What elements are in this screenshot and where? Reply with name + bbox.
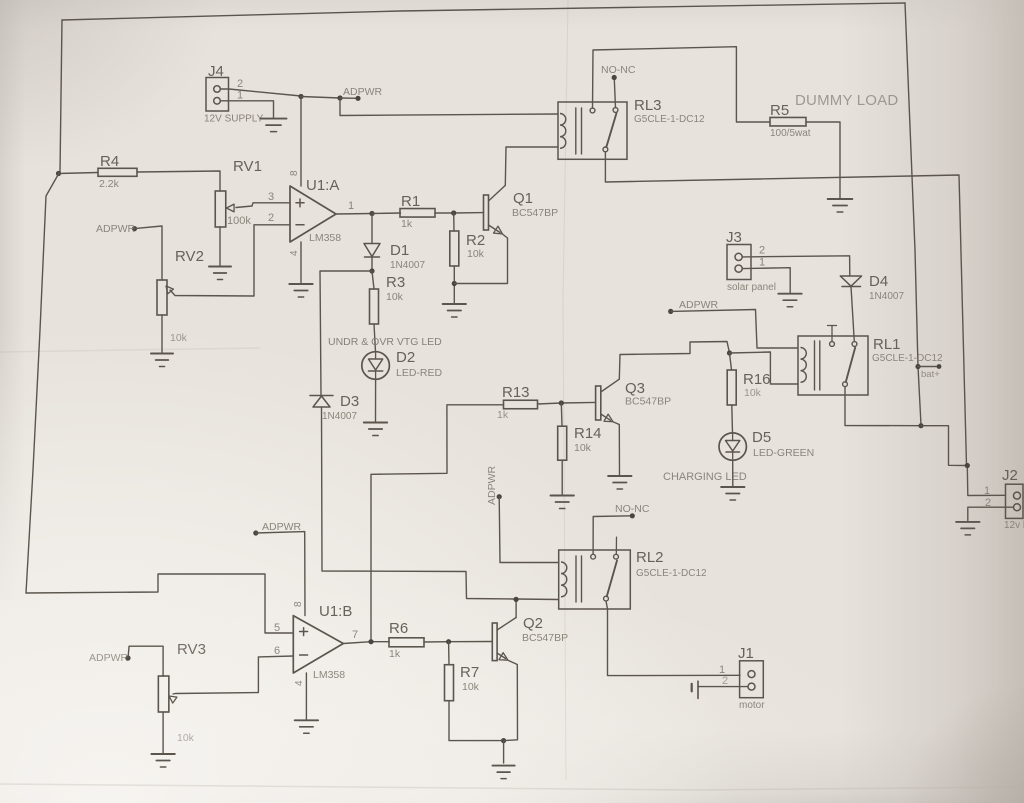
label R3 value 10k xyxy=(386,291,404,303)
ground U1:A xyxy=(289,284,312,297)
node U1:A output junction xyxy=(369,211,374,216)
svg-text:10k: 10k xyxy=(574,442,592,454)
wire D2 to ground xyxy=(375,379,377,421)
svg-text:NO-NC: NO-NC xyxy=(601,64,636,76)
label D1 value 1N4007 xyxy=(390,260,425,271)
label R13 value 1k xyxy=(497,409,509,421)
svg-text:Q3: Q3 xyxy=(625,380,645,397)
wire RV3 wiper to U1:B pin6 xyxy=(173,656,293,694)
wire node to R7 xyxy=(448,642,450,665)
svg-text:5: 5 xyxy=(274,622,280,634)
svg-text:D3: D3 xyxy=(340,393,359,410)
label U1:B LM358 xyxy=(313,669,345,681)
svg-text:10k: 10k xyxy=(467,248,485,260)
label R16 xyxy=(743,371,771,388)
label net ADPWR (RV2) xyxy=(96,223,136,235)
label net ADPWR (U1:B) xyxy=(262,521,302,533)
label R7 value 10k xyxy=(462,681,480,693)
wire Q2 collector to RL2 coil node xyxy=(515,599,517,617)
relay RL3 xyxy=(558,102,627,159)
wire RV1 bottom to ground xyxy=(219,227,221,266)
connector J1 xyxy=(740,661,764,698)
svg-text:J1: J1 xyxy=(738,645,754,662)
ground R2 xyxy=(443,304,466,317)
label Q3 xyxy=(625,380,645,397)
diode D3 xyxy=(310,396,333,408)
node RL1 common/bat+ junction xyxy=(918,423,923,428)
label R7 xyxy=(460,664,479,681)
svg-text:NO-NC: NO-NC xyxy=(615,503,650,515)
svg-text:RV1: RV1 xyxy=(233,158,262,175)
svg-text:2: 2 xyxy=(722,675,728,687)
svg-text:Q1: Q1 xyxy=(513,190,533,207)
svg-text:DUMMY LOAD: DUMMY LOAD xyxy=(795,92,898,109)
wire RL2 common to J1 xyxy=(606,601,740,676)
wire Q1 collector to RL3 xyxy=(505,147,558,185)
node R13/R14 junction xyxy=(559,400,564,405)
label motor xyxy=(739,700,765,711)
wire bat+ stub xyxy=(918,366,939,368)
wire R2 to ground xyxy=(453,266,455,303)
wire top border (bat+ net) xyxy=(62,3,905,20)
svg-text:12V SUPPLY: 12V SUPPLY xyxy=(204,114,264,125)
ground J2 xyxy=(956,522,979,535)
ground D5 xyxy=(721,487,744,500)
svg-text:4: 4 xyxy=(294,680,305,686)
wire D1 to node xyxy=(371,257,373,271)
wire U1:B output pin7 xyxy=(343,642,389,644)
wire RV2 bottom to ground xyxy=(161,315,163,353)
label U1:A xyxy=(306,177,339,194)
connector J4 xyxy=(206,78,229,112)
label R2 xyxy=(466,232,485,249)
wire node to R1 xyxy=(372,212,401,215)
relay RL2 xyxy=(559,537,631,609)
wire node to R16 xyxy=(730,353,732,370)
wire R1 to Q1 base xyxy=(435,212,484,214)
wire right border vertical (bat+) xyxy=(905,3,921,425)
label net ADPWR (RV3) xyxy=(89,652,129,664)
svg-text:1: 1 xyxy=(237,90,243,102)
label U1:B pin 7 xyxy=(352,629,358,641)
svg-text:1N4007: 1N4007 xyxy=(322,411,357,422)
node ADPWR terminal xyxy=(355,96,360,101)
node R6/R7 junction xyxy=(446,639,451,644)
transistor Q2 xyxy=(492,618,517,741)
node R2/Q1 emitter junction xyxy=(452,281,457,286)
wire RL1 common to bat+ junction xyxy=(845,387,921,426)
wire node to R3 xyxy=(372,271,374,289)
label R4 value 2.2k xyxy=(99,178,120,190)
svg-text:10k: 10k xyxy=(170,332,188,344)
node bat+ terminal xyxy=(937,364,942,369)
wire junction to ADPWR dot xyxy=(301,97,340,99)
label R2 value 10k xyxy=(467,248,485,260)
label R1 xyxy=(401,193,420,210)
label J2 xyxy=(1002,467,1018,484)
wire ADPWR to RL2 coil pin1 xyxy=(499,497,559,563)
svg-text:D1: D1 xyxy=(390,242,409,259)
ground J3 xyxy=(778,294,801,307)
resistor R3 xyxy=(370,289,379,324)
label U1:B pin 5 xyxy=(274,622,280,634)
label RV1 value 100k xyxy=(227,215,251,227)
label U1:A pin 4 xyxy=(289,250,300,256)
wire ADPWR to RL3 coil xyxy=(340,98,558,116)
svg-text:LED-GREEN: LED-GREEN xyxy=(753,447,814,459)
svg-text:2.2k: 2.2k xyxy=(99,178,120,190)
svg-text:ADPWR: ADPWR xyxy=(679,299,719,311)
svg-text:R13: R13 xyxy=(502,384,530,401)
label Q2 BC547BP xyxy=(522,632,568,644)
svg-text:1k: 1k xyxy=(497,409,509,421)
svg-text:U1:B: U1:B xyxy=(319,603,352,620)
svg-text:RV3: RV3 xyxy=(177,641,206,658)
label net ADPWR (top) xyxy=(343,86,383,98)
svg-text:G5CLE-1-DC12: G5CLE-1-DC12 xyxy=(636,568,707,579)
label R6 value 1k xyxy=(389,648,401,660)
wire R14 to ground xyxy=(561,460,563,494)
label R3 xyxy=(386,274,405,291)
label D4 value 1N4007 xyxy=(869,291,904,302)
svg-text:12v b: 12v b xyxy=(1004,520,1024,531)
label U1:A LM358 xyxy=(309,232,341,244)
wire J4 pin1 to ground xyxy=(221,101,274,118)
svg-text:R3: R3 xyxy=(386,274,405,291)
label DUMMY LOAD xyxy=(795,92,898,109)
svg-text:motor: motor xyxy=(739,700,765,711)
svg-text:1: 1 xyxy=(348,200,354,212)
svg-text:2: 2 xyxy=(268,212,274,224)
wire R16 to D5 xyxy=(731,405,734,433)
svg-text:1N4007: 1N4007 xyxy=(869,291,904,302)
label D5 LED-GREEN xyxy=(753,447,814,459)
ground RV3 xyxy=(151,754,174,767)
svg-text:BC547BP: BC547BP xyxy=(512,207,558,219)
svg-text:G5CLE-1-DC12: G5CLE-1-DC12 xyxy=(634,114,705,125)
svg-text:D4: D4 xyxy=(869,273,888,290)
label J1 xyxy=(738,645,754,662)
svg-text:R5: R5 xyxy=(770,102,789,119)
label net ADPWR (RL2) vertical xyxy=(486,466,498,506)
svg-text:10k: 10k xyxy=(177,732,195,744)
node NO-NC RL2 xyxy=(630,513,635,518)
diode D4 xyxy=(840,276,861,287)
wire ADPWR to RL1 coil pin1 xyxy=(671,310,798,349)
battery polarity mark J1 xyxy=(692,681,698,698)
label J1 pin 1 xyxy=(719,664,725,676)
wire R3 to D2 xyxy=(374,324,376,352)
ground R14 xyxy=(551,496,574,509)
svg-text:bat+: bat+ xyxy=(921,369,940,380)
wire ADPWR to RV3 top xyxy=(128,646,163,676)
label 12V SUPPLY xyxy=(204,114,264,125)
label NO-NC (RL3) xyxy=(601,64,636,76)
label J3 pin 2 xyxy=(759,245,765,257)
svg-text:2: 2 xyxy=(759,245,765,257)
wire RL3 NC contact to R5 xyxy=(593,47,771,122)
label J2 pin 1 xyxy=(984,485,990,497)
label Q3 BC547BP xyxy=(625,396,671,408)
label J1 pin 2 xyxy=(722,675,728,687)
wire R4 node to R4 xyxy=(59,173,99,174)
wire RL2 NO contact to NO-NC node xyxy=(593,516,632,555)
wire R6 to Q2 base xyxy=(424,641,492,644)
svg-text:RL2: RL2 xyxy=(636,549,664,566)
label Q2 xyxy=(523,615,543,632)
label D4 xyxy=(869,273,888,290)
wire RL3 common to battery line xyxy=(605,152,966,466)
label D2 xyxy=(396,349,415,366)
label J4 pin 1 xyxy=(237,90,243,102)
wire U1:B pin4 to ground xyxy=(305,673,307,719)
svg-text:RL3: RL3 xyxy=(634,97,662,114)
potentiometer RV2 xyxy=(157,280,173,315)
resistor R5 xyxy=(770,117,806,126)
svg-text:1k: 1k xyxy=(389,648,401,660)
svg-text:BC547BP: BC547BP xyxy=(522,632,568,644)
svg-text:ADPWR: ADPWR xyxy=(89,652,129,664)
resistor R14 xyxy=(558,426,567,460)
label J2 pin 2 xyxy=(985,497,991,509)
node ADPWR (U1:B supply) xyxy=(253,530,258,535)
node R7/Q2 emitter junction xyxy=(501,738,506,743)
node battery line junction xyxy=(965,463,970,468)
wire ADPWR stub xyxy=(340,97,358,99)
resistor R6 xyxy=(389,638,424,647)
wire U1:A output pin1 xyxy=(336,213,372,216)
LED D2 xyxy=(362,352,390,380)
svg-text:10k: 10k xyxy=(386,291,404,303)
svg-text:UNDR & OVR VTG LED: UNDR & OVR VTG LED xyxy=(328,336,442,348)
svg-text:ADPWR: ADPWR xyxy=(343,86,383,98)
relay RL1 xyxy=(798,326,868,396)
label RL1 xyxy=(873,336,901,353)
op-amp U1:B xyxy=(293,616,343,673)
transistor Q1 xyxy=(454,185,507,283)
svg-text:U1:A: U1:A xyxy=(306,177,339,194)
label R14 value 10k xyxy=(574,442,592,454)
svg-text:R14: R14 xyxy=(574,425,602,442)
label net bat+ xyxy=(921,369,940,380)
connector J2 xyxy=(1006,484,1024,518)
svg-text:LM358: LM358 xyxy=(313,669,345,681)
node R4/border junction xyxy=(56,171,61,176)
label net ADPWR (RL1) xyxy=(679,299,719,311)
node ADPWR (RL1 coil) xyxy=(668,309,673,314)
wire J4 pin2 to ADPWR node xyxy=(221,89,302,96)
svg-text:R2: R2 xyxy=(466,232,485,249)
label R14 xyxy=(574,425,602,442)
label Q1 xyxy=(513,190,533,207)
label U1:B pin 8 xyxy=(293,601,304,607)
resistor R2 xyxy=(450,231,459,266)
node ADPWR (RL2 coil) xyxy=(497,494,502,499)
wire ADPWR to U1:B pin8 xyxy=(256,532,305,616)
wire D4 to RL1 NO contact xyxy=(851,287,854,342)
svg-text:4: 4 xyxy=(289,250,300,256)
wire R13 left run from U1:B output xyxy=(371,405,504,642)
wire R5 to ground xyxy=(806,122,840,198)
label RV2 xyxy=(175,248,204,265)
svg-text:RL1: RL1 xyxy=(873,336,901,353)
label R1 value 1k xyxy=(401,218,413,230)
ground RV2 xyxy=(151,354,173,367)
ground Q2 emitter xyxy=(493,766,515,779)
wire J2 pin2 to ground xyxy=(968,507,1014,521)
svg-text:J3: J3 xyxy=(726,229,742,246)
label R4 xyxy=(100,153,119,170)
svg-text:D2: D2 xyxy=(396,349,415,366)
svg-text:7: 7 xyxy=(352,629,358,641)
label Q1 BC547BP xyxy=(512,207,558,219)
label 12v b xyxy=(1004,520,1024,531)
svg-text:8: 8 xyxy=(289,170,300,176)
potentiometer RV3 xyxy=(158,676,177,712)
svg-text:1N4007: 1N4007 xyxy=(390,260,425,271)
svg-text:Q2: Q2 xyxy=(523,615,543,632)
svg-text:R1: R1 xyxy=(401,193,420,210)
svg-text:BC547BP: BC547BP xyxy=(625,396,671,408)
resistor R1 xyxy=(400,209,435,218)
label UNDR & OVR VTG LED xyxy=(328,336,442,348)
label RL1 G5CLE-1-DC12 xyxy=(872,353,943,364)
label U1:A pin 2 xyxy=(268,212,274,224)
wire node to D1 xyxy=(371,214,373,244)
label R13 xyxy=(502,384,530,401)
wire Q3 collector run to RL1 coil xyxy=(619,342,729,380)
label R5 value 100/5wat xyxy=(770,128,811,139)
op-amp U1:A xyxy=(290,186,336,242)
resistor R13 xyxy=(504,400,538,409)
node J4/U1A supply junction xyxy=(298,94,303,99)
transistor Q3 xyxy=(596,379,620,475)
wire J3 pin2 to D4 xyxy=(742,256,850,276)
node NO-NC RL3 xyxy=(612,75,617,80)
label J3 pin 1 xyxy=(759,257,765,269)
label RL2 G5CLE-1-DC12 xyxy=(636,568,707,579)
wire RL3 NO contact to NO-NC node xyxy=(614,79,615,108)
diode D1 xyxy=(364,244,380,258)
svg-text:1k: 1k xyxy=(401,218,413,230)
wire U1:A pin8 supply xyxy=(300,97,302,187)
svg-text:100k: 100k xyxy=(227,215,251,227)
label R16 value 10k xyxy=(744,387,762,399)
ground D2 xyxy=(364,423,387,436)
wire J3 pin1 to ground xyxy=(742,268,790,293)
label R6 xyxy=(389,620,408,637)
svg-text:8: 8 xyxy=(293,601,304,607)
svg-text:D5: D5 xyxy=(752,429,771,446)
node bat+ junction xyxy=(915,364,920,369)
svg-text:1: 1 xyxy=(984,485,990,497)
node Q3 collector/R16 junction xyxy=(727,350,732,355)
label U1:B pin 4 xyxy=(294,680,305,686)
svg-text:J2: J2 xyxy=(1002,467,1018,484)
label U1:B xyxy=(319,603,352,620)
label D1 xyxy=(390,242,409,259)
label solar panel xyxy=(727,282,776,293)
label R5 xyxy=(770,102,789,119)
label U1:A pin 1 xyxy=(348,200,354,212)
ground U1:B xyxy=(295,720,318,733)
svg-text:R4: R4 xyxy=(100,153,119,170)
svg-text:ADPWR: ADPWR xyxy=(96,223,136,235)
svg-text:LED-RED: LED-RED xyxy=(396,367,443,379)
wire D3 down-left run to RL2 coil xyxy=(322,407,559,600)
wire RV2 wiper to U1:A pin2 xyxy=(170,225,290,296)
svg-text:10k: 10k xyxy=(462,681,480,693)
label J4 xyxy=(208,63,224,80)
svg-text:solar panel: solar panel xyxy=(727,282,776,293)
wire D5 to ground xyxy=(732,460,734,486)
label RL3 xyxy=(634,97,662,114)
label RV2 value 10k xyxy=(170,332,188,344)
wire node to R14 xyxy=(560,403,563,426)
wire ADPWR to RV2 top xyxy=(135,226,163,280)
label RV1 xyxy=(233,158,262,175)
label D3 value 1N4007 xyxy=(322,411,357,422)
wire U1:A pin4 to ground xyxy=(300,242,302,283)
wire node to R2 xyxy=(453,213,455,231)
node D1/R3/D3 junction xyxy=(369,268,374,273)
LED D5 xyxy=(719,433,746,460)
label RL3 G5CLE-1-DC12 xyxy=(634,114,705,125)
svg-text:10k: 10k xyxy=(744,387,762,399)
label U1:A pin 8 xyxy=(289,170,300,176)
wire bottom-left to U1:B pin5 xyxy=(26,574,292,633)
svg-text:3: 3 xyxy=(268,191,274,203)
wire junction to J2 pin1 xyxy=(921,426,1006,496)
svg-text:ADPWR: ADPWR xyxy=(486,466,498,506)
ground R5 xyxy=(828,199,853,212)
label D2 LED-RED xyxy=(396,367,443,379)
label J3 xyxy=(726,229,742,246)
label U1:A pin 3 xyxy=(268,191,274,203)
wire RV3 bottom to ground xyxy=(162,712,164,753)
wire R7 to emitter node xyxy=(449,701,504,741)
label D5 xyxy=(752,429,771,446)
svg-text:J4: J4 xyxy=(208,63,224,80)
resistor R16 xyxy=(727,370,736,405)
svg-text:R16: R16 xyxy=(743,371,771,388)
label U1:B pin 6 xyxy=(274,645,280,657)
label CHARGING LED xyxy=(663,471,747,483)
node U1:B output junction xyxy=(368,639,373,644)
wire node to D3 xyxy=(320,271,372,395)
wire left border vertical to R4 node xyxy=(60,20,62,172)
label NO-NC (RL2) xyxy=(615,503,650,515)
connector J3 xyxy=(727,245,751,280)
resistor R4 xyxy=(98,168,137,176)
svg-text:100/5wat: 100/5wat xyxy=(770,128,811,139)
ground Q3 emitter xyxy=(608,476,631,489)
svg-text:R7: R7 xyxy=(460,664,479,681)
label D3 xyxy=(340,393,359,410)
svg-text:1: 1 xyxy=(759,257,765,269)
potentiometer RV1 xyxy=(215,191,234,227)
svg-text:2: 2 xyxy=(237,78,243,90)
wire R13 to Q3 base xyxy=(538,402,596,404)
ground J4 xyxy=(261,119,287,132)
label RV3 xyxy=(177,641,206,658)
ground RV1 xyxy=(209,267,231,280)
label J4 pin 2 xyxy=(237,78,243,90)
node ADPWR RV3 xyxy=(125,655,130,660)
wire R4 to RV1 top xyxy=(137,171,220,191)
node ADPWR branch xyxy=(337,95,342,100)
svg-text:6: 6 xyxy=(274,645,280,657)
